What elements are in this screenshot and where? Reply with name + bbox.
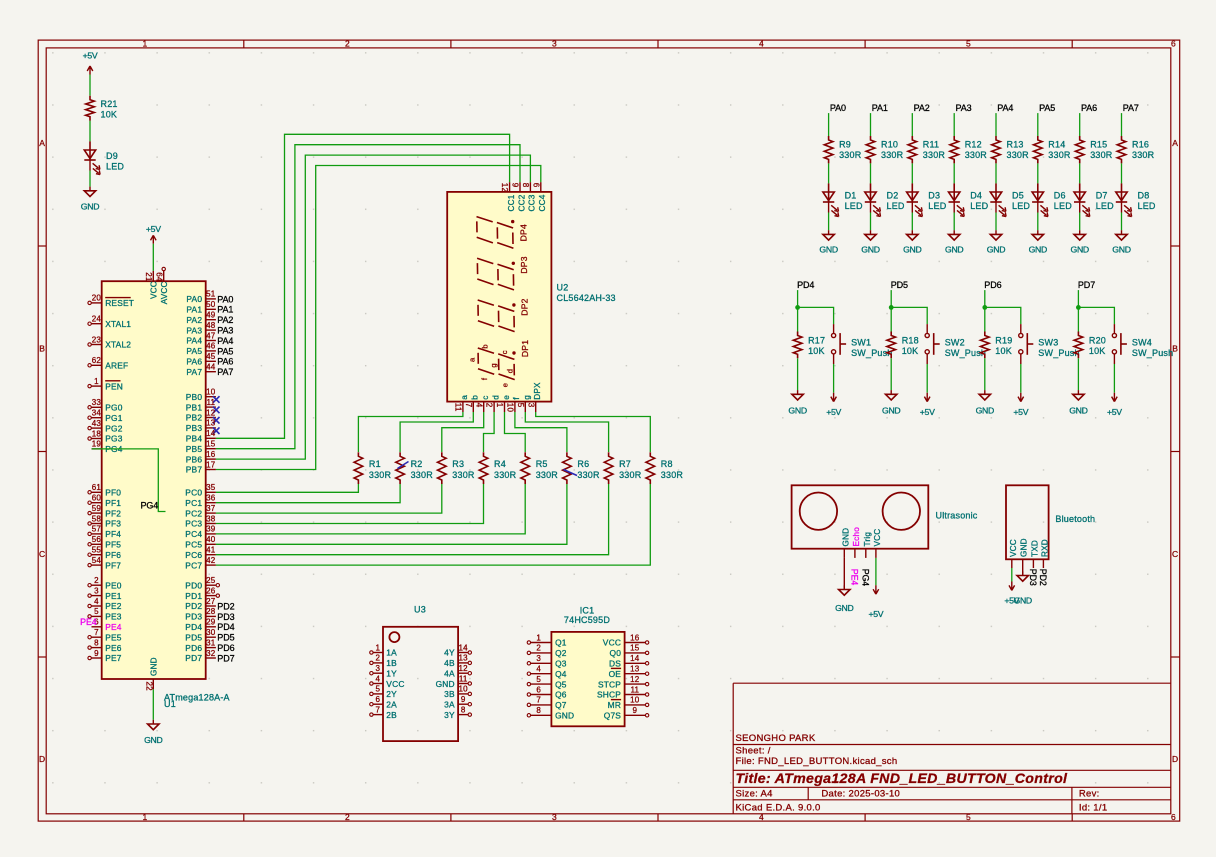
svg-text:PB7: PB7 xyxy=(186,465,203,475)
pin 24 XTAL1 (U1 left) xyxy=(88,315,131,329)
svg-text:3: 3 xyxy=(552,38,557,48)
svg-text:GND: GND xyxy=(144,735,162,745)
wire PA4 to R13 xyxy=(995,113,997,136)
wire PA1 to R10 xyxy=(870,113,872,136)
U2 digit DP1 with segment letters xyxy=(478,340,530,380)
svg-text:3B: 3B xyxy=(444,689,455,699)
pin 38 PC3 (U1 right) xyxy=(185,514,216,528)
svg-text:9: 9 xyxy=(461,695,466,704)
wire PD6 down xyxy=(984,290,986,307)
wire PB5 to CC2 xyxy=(216,145,520,449)
svg-text:PB1: PB1 xyxy=(186,402,203,412)
LED D7 xyxy=(1074,183,1114,216)
svg-text:PE4: PE4 xyxy=(105,622,122,632)
svg-text:PB3: PB3 xyxy=(186,423,203,433)
svg-text:+5V: +5V xyxy=(868,609,883,619)
wire R11 to D3 xyxy=(911,163,913,183)
svg-text:10K: 10K xyxy=(808,346,825,356)
junction node PD4 xyxy=(795,305,800,310)
svg-text:10K: 10K xyxy=(902,346,919,356)
svg-text:PA6: PA6 xyxy=(217,357,233,367)
pin 14 PB4 (U1 right) xyxy=(186,429,216,443)
svg-text:DPX: DPX xyxy=(533,382,542,400)
switch SW3 SW_Push xyxy=(1019,324,1080,364)
svg-text:D8: D8 xyxy=(1138,191,1150,201)
switch SW1 SW_Push xyxy=(832,324,893,364)
pin 7 Q7 (IC1 left) xyxy=(527,696,567,710)
svg-text:PD1: PD1 xyxy=(185,591,202,601)
svg-text:R4: R4 xyxy=(494,459,506,469)
svg-text:PE4: PE4 xyxy=(80,617,97,627)
svg-text:6: 6 xyxy=(531,183,540,188)
svg-text:5: 5 xyxy=(966,812,971,822)
LED D3 xyxy=(907,183,947,216)
pin 11 GND (U3 right) xyxy=(436,674,472,689)
svg-text:1: 1 xyxy=(495,403,504,408)
svg-text:PA1: PA1 xyxy=(872,103,888,113)
svg-text:D2: D2 xyxy=(887,191,899,201)
svg-text:R12: R12 xyxy=(965,140,982,150)
resistor R11 xyxy=(908,136,945,163)
svg-text:330R: 330R xyxy=(452,470,475,480)
pin 10 3B (U3 right) xyxy=(444,685,471,699)
svg-text:SW2: SW2 xyxy=(945,338,965,348)
pin 56 PF5 (U1 left) xyxy=(88,535,121,549)
pin 39 PC4 (U1 right) xyxy=(185,525,216,539)
svg-text:GND: GND xyxy=(1029,244,1047,254)
svg-text:U2: U2 xyxy=(557,283,569,293)
svg-text:11: 11 xyxy=(454,403,463,412)
svg-text:PE4: PE4 xyxy=(850,569,860,586)
wire D1 to GND xyxy=(828,213,830,231)
LED D9 xyxy=(84,141,124,174)
ground GND (bluetooth) xyxy=(1013,571,1031,605)
power +5V (top-left) xyxy=(83,50,98,74)
ground GND (top-left) xyxy=(81,187,99,212)
svg-text:24: 24 xyxy=(92,315,102,324)
svg-text:4: 4 xyxy=(759,38,764,48)
pin 1 e (U2 bottom) xyxy=(495,395,511,412)
svg-text:KiCad E.D.A. 9.0.0: KiCad E.D.A. 9.0.0 xyxy=(736,803,821,814)
svg-text:23: 23 xyxy=(92,335,102,344)
svg-text:Size: A4: Size: A4 xyxy=(736,788,773,799)
svg-text:MR: MR xyxy=(608,700,621,710)
svg-text:4: 4 xyxy=(536,665,541,674)
wire D6 to GND xyxy=(1037,213,1039,231)
svg-text:D1: D1 xyxy=(845,191,857,201)
svg-text:PE1: PE1 xyxy=(105,591,122,601)
svg-text:7: 7 xyxy=(536,696,541,705)
svg-text:PA5: PA5 xyxy=(186,346,202,356)
svg-text:PG2: PG2 xyxy=(105,423,123,433)
svg-text:6: 6 xyxy=(375,695,380,704)
wire junction to switch branch xyxy=(985,307,1021,324)
pin 16 VCC (IC1 right) xyxy=(603,633,649,647)
wire R19 to GND xyxy=(984,358,986,390)
svg-text:Q7S: Q7S xyxy=(604,711,622,721)
LED D6 xyxy=(1032,183,1072,216)
ground GND (LED column 4) xyxy=(987,230,1005,254)
svg-text:10: 10 xyxy=(459,685,469,694)
svg-text:R15: R15 xyxy=(1090,140,1107,150)
pin 12 4A (U3 right) xyxy=(444,664,471,678)
pin 10 MR (IC1 right) xyxy=(608,696,649,710)
resistor R15 xyxy=(1075,136,1112,163)
svg-text:25: 25 xyxy=(206,576,216,585)
pin 42 PC7 (U1 right) xyxy=(185,556,216,570)
svg-text:3A: 3A xyxy=(444,700,455,710)
pin 58 PF3 (U1 left) xyxy=(88,514,121,528)
pin 8 3Y (U3 right) xyxy=(444,705,471,719)
IC1 body xyxy=(551,632,624,726)
svg-text:PD7: PD7 xyxy=(185,653,202,663)
svg-text:7: 7 xyxy=(94,628,99,637)
pin 1 1A (U3 left) xyxy=(370,643,397,657)
pin VCC (ultrasonic) xyxy=(873,529,882,558)
svg-text:PB5: PB5 xyxy=(186,444,203,454)
svg-text:Q4: Q4 xyxy=(555,669,567,679)
pin 5 Q5 (IC1 left) xyxy=(527,675,567,689)
pin 5 2Y (U3 left) xyxy=(370,685,397,699)
pin 17 PB7 (U1 right) xyxy=(186,460,216,474)
ground GND (switch column 0) xyxy=(788,390,806,415)
svg-text:R3: R3 xyxy=(452,459,464,469)
svg-text:R21: R21 xyxy=(101,99,118,109)
resistor R20 xyxy=(1074,332,1106,359)
svg-text:B: B xyxy=(39,344,45,354)
svg-text:PF7: PF7 xyxy=(105,560,121,570)
svg-text:30: 30 xyxy=(206,628,216,637)
svg-text:AREF: AREF xyxy=(105,361,128,371)
svg-text:14: 14 xyxy=(206,429,216,438)
svg-text:D6: D6 xyxy=(1054,191,1066,201)
power +5V (switch column 2) xyxy=(1013,393,1028,417)
svg-text:8: 8 xyxy=(521,183,530,188)
pin 22 GND (U1 bottom) xyxy=(145,657,159,691)
pin 35 PC0 (U1 right) xyxy=(185,483,216,497)
svg-text:PD6: PD6 xyxy=(217,643,234,653)
svg-text:2: 2 xyxy=(94,576,99,585)
svg-text:LED: LED xyxy=(1054,201,1072,211)
svg-text:OE: OE xyxy=(609,669,622,679)
wire g to R7 xyxy=(525,412,608,452)
svg-text:PD4: PD4 xyxy=(217,622,234,632)
svg-text:13: 13 xyxy=(459,654,469,663)
svg-text:LED: LED xyxy=(106,162,124,172)
svg-text:SEONGHO PARK: SEONGHO PARK xyxy=(736,733,816,744)
pin 7 b (U2 bottom) xyxy=(464,395,480,412)
power +5V (above U1 VCC) xyxy=(146,224,161,244)
frame row letters xyxy=(39,138,1178,764)
wire PG4 from pin 19 xyxy=(92,449,166,512)
svg-text:STCP: STCP xyxy=(598,679,621,689)
svg-text:330R: 330R xyxy=(577,470,600,480)
pin 1 Q1 (IC1 left) xyxy=(527,633,567,647)
svg-text:+5V: +5V xyxy=(146,224,161,234)
wire PD7 down xyxy=(1077,290,1079,307)
svg-text:12: 12 xyxy=(500,183,509,193)
svg-text:15: 15 xyxy=(206,440,216,449)
svg-text:48: 48 xyxy=(206,321,216,330)
power +5V (ultrasonic) xyxy=(868,585,883,619)
svg-text:PA3: PA3 xyxy=(217,326,233,336)
svg-text:57: 57 xyxy=(92,525,102,534)
svg-text:7: 7 xyxy=(375,705,380,714)
svg-text:VCC: VCC xyxy=(1009,539,1018,557)
svg-text:14: 14 xyxy=(459,643,469,652)
svg-text:GND: GND xyxy=(1020,538,1029,557)
svg-text:Q2: Q2 xyxy=(555,648,567,658)
pin 49 PA2 (U1 right) xyxy=(186,311,216,325)
pin 2 d (U2 bottom) xyxy=(485,395,501,412)
svg-text:4: 4 xyxy=(375,674,380,683)
wire R21 to D9 xyxy=(89,121,91,142)
svg-text:15: 15 xyxy=(630,644,640,653)
pin TXD (bluetooth) xyxy=(1030,540,1039,568)
svg-text:GND: GND xyxy=(1070,244,1088,254)
resistor R18 xyxy=(887,332,919,359)
svg-text:PA3: PA3 xyxy=(956,103,972,113)
pin 62 AREF (U1 left) xyxy=(88,356,128,370)
svg-text:LED: LED xyxy=(887,201,905,211)
svg-text:11: 11 xyxy=(459,674,468,683)
svg-text:PC7: PC7 xyxy=(185,560,202,570)
svg-text:PC3: PC3 xyxy=(185,519,202,529)
pin 12 PB2 (U1 right) xyxy=(186,408,220,423)
svg-text:R8: R8 xyxy=(661,459,673,469)
pin 2 1B (U3 left) xyxy=(370,654,397,669)
svg-text:PC4: PC4 xyxy=(185,529,202,539)
svg-text:43: 43 xyxy=(92,419,102,428)
ground GND (LED column 7) xyxy=(1112,230,1130,254)
svg-text:D5: D5 xyxy=(1012,191,1024,201)
svg-text:R20: R20 xyxy=(1089,336,1106,346)
U2 digit DP2 xyxy=(478,298,530,331)
wire R5 to PC4 xyxy=(216,484,525,534)
svg-text:LED: LED xyxy=(1138,201,1156,211)
pin 13 4B (U3 right) xyxy=(444,654,471,669)
svg-text:PC1: PC1 xyxy=(185,498,202,508)
svg-text:13: 13 xyxy=(630,665,640,674)
svg-text:2: 2 xyxy=(375,654,380,663)
svg-text:31: 31 xyxy=(206,638,216,647)
svg-text:17: 17 xyxy=(206,460,216,469)
svg-text:36: 36 xyxy=(206,494,216,503)
svg-text:DP1: DP1 xyxy=(520,340,530,357)
svg-text:XTAL1: XTAL1 xyxy=(105,319,131,329)
pin 9 CC2 (U2 top) xyxy=(511,182,527,211)
svg-text:PG4: PG4 xyxy=(141,501,159,511)
pin 21 VCC xyxy=(144,271,159,299)
pin 8 GND (IC1 left) xyxy=(527,706,574,720)
svg-text:PD7: PD7 xyxy=(1078,280,1095,290)
svg-text:PB4: PB4 xyxy=(186,434,203,444)
pin 6 Q6 (IC1 left) xyxy=(527,685,567,699)
wire D4 to GND xyxy=(953,213,955,231)
pin 1 PEN (U1 left) xyxy=(88,377,123,391)
pin 12 CC1 (U2 top) xyxy=(500,182,516,211)
svg-text:26: 26 xyxy=(206,586,216,595)
wire ultrasonic VCC down xyxy=(875,558,877,585)
pin 54 PF7 (U1 left) xyxy=(88,556,121,570)
pin 45 PA6 (U1 right) xyxy=(186,352,216,366)
svg-text:GND: GND xyxy=(436,679,455,689)
wire PA0 to R9 xyxy=(828,113,830,136)
svg-text:R18: R18 xyxy=(902,336,919,346)
svg-text:PA0: PA0 xyxy=(217,294,233,304)
pin 25 PD0 (U1 right) xyxy=(185,576,219,590)
pin 8 PE6 (U1 left) xyxy=(88,638,122,652)
pin 4 Q4 (IC1 left) xyxy=(527,665,567,679)
wire b to R2 xyxy=(400,412,473,452)
svg-text:b: b xyxy=(471,395,480,400)
svg-text:R14: R14 xyxy=(1048,140,1065,150)
pin GND (ultrasonic) xyxy=(841,528,850,558)
svg-text:GND: GND xyxy=(903,244,921,254)
power +5V (switch column 0) xyxy=(826,393,841,417)
svg-text:C: C xyxy=(39,549,45,559)
svg-text:PD3: PD3 xyxy=(1028,569,1038,586)
op-amp U1 ATmega128A body xyxy=(102,281,206,679)
svg-text:GND: GND xyxy=(976,406,994,416)
pin GND (bluetooth) xyxy=(1020,538,1029,568)
svg-text:330R: 330R xyxy=(923,150,946,160)
svg-text:3: 3 xyxy=(94,586,99,595)
svg-text:A: A xyxy=(1172,138,1178,148)
wire R17 to GND xyxy=(797,358,799,390)
ground GND (below U1) xyxy=(144,720,162,745)
wire R1 to PC0 xyxy=(216,484,359,492)
svg-text:PB6: PB6 xyxy=(186,454,203,464)
svg-text:R7: R7 xyxy=(619,459,631,469)
svg-text:Q6: Q6 xyxy=(555,690,567,700)
svg-text:2: 2 xyxy=(536,644,541,653)
wire R10 to D2 xyxy=(870,163,872,183)
svg-text:R1: R1 xyxy=(369,459,381,469)
svg-text:a: a xyxy=(468,357,477,362)
wire c to R3 xyxy=(442,412,484,452)
svg-text:RESET: RESET xyxy=(105,298,134,308)
svg-text:4A: 4A xyxy=(444,668,455,678)
LED D5 xyxy=(990,183,1030,216)
svg-text:9: 9 xyxy=(632,706,637,715)
resistor R6 xyxy=(563,452,600,484)
wire PB6 to CC3 xyxy=(216,155,531,459)
svg-text:50: 50 xyxy=(206,300,216,309)
svg-text:PD2: PD2 xyxy=(217,601,234,611)
svg-text:LED: LED xyxy=(928,201,946,211)
LED D8 xyxy=(1116,183,1156,216)
pin 14 DS (IC1 right) xyxy=(609,654,649,668)
svg-text:b: b xyxy=(481,344,490,348)
svg-text:PD7: PD7 xyxy=(217,653,234,663)
svg-text:PA5: PA5 xyxy=(1039,103,1055,113)
pin 41 PC6 (U1 right) xyxy=(185,546,216,560)
svg-text:+5V: +5V xyxy=(1107,407,1122,417)
svg-text:42: 42 xyxy=(206,556,216,565)
pin 9 3A (U3 right) xyxy=(444,695,471,710)
svg-text:4: 4 xyxy=(94,597,99,606)
svg-text:PE5: PE5 xyxy=(105,632,122,642)
wire R9 to D1 xyxy=(828,163,830,183)
wire junction to R18 xyxy=(890,307,892,331)
svg-text:11: 11 xyxy=(206,398,215,407)
svg-text:40: 40 xyxy=(206,535,216,544)
svg-text:PA2: PA2 xyxy=(914,103,930,113)
svg-text:330R: 330R xyxy=(536,470,559,480)
U3 body xyxy=(383,627,458,741)
svg-text:11: 11 xyxy=(630,685,639,694)
svg-text:4: 4 xyxy=(474,403,483,408)
pin 13 PB3 (U1 right) xyxy=(186,419,220,434)
svg-text:1Y: 1Y xyxy=(386,668,397,678)
pin 27 PD2 (U1 right) xyxy=(185,597,216,611)
wire junction to switch branch xyxy=(1078,307,1114,324)
wire R2 to PC1 xyxy=(216,484,400,503)
wire junction to R20 xyxy=(1077,307,1079,331)
svg-text:+5V: +5V xyxy=(1013,407,1028,417)
svg-text:33: 33 xyxy=(92,398,102,407)
wire f to R6 xyxy=(515,412,567,452)
wire e to R5 xyxy=(505,412,526,452)
svg-text:SW1: SW1 xyxy=(851,338,871,348)
ground GND (ultrasonic) xyxy=(835,585,853,613)
svg-text:PD6: PD6 xyxy=(984,280,1001,290)
pin 44 PA7 (U1 right) xyxy=(186,363,216,377)
LED D2 xyxy=(865,183,905,216)
LED D1 xyxy=(823,183,863,216)
pin 30 PD5 (U1 right) xyxy=(185,628,216,642)
svg-text:3: 3 xyxy=(552,812,557,822)
svg-text:GND: GND xyxy=(819,244,837,254)
svg-text:41: 41 xyxy=(206,546,216,555)
wire PA6 to R15 xyxy=(1079,113,1081,136)
svg-text:13: 13 xyxy=(206,419,216,428)
svg-text:PD5: PD5 xyxy=(891,280,908,290)
svg-text:PA1: PA1 xyxy=(217,305,233,315)
svg-text:1: 1 xyxy=(94,377,99,386)
svg-text:1: 1 xyxy=(375,643,380,652)
svg-text:PE3: PE3 xyxy=(105,612,122,622)
svg-text:PEN: PEN xyxy=(105,381,123,391)
svg-text:c: c xyxy=(500,350,509,354)
pin 9 Q7S (IC1 right) xyxy=(604,706,649,720)
pin 4 c (U2 bottom) xyxy=(474,396,490,412)
svg-text:35: 35 xyxy=(206,483,216,492)
resistor R8 xyxy=(646,452,683,484)
ultrasonic sensor body xyxy=(792,485,929,548)
svg-text:2A: 2A xyxy=(386,700,397,710)
svg-text:PA1: PA1 xyxy=(186,305,202,315)
svg-text:PC0: PC0 xyxy=(185,488,202,498)
wire SW2 to +5V xyxy=(926,364,928,393)
pin 46 PA5 (U1 right) xyxy=(186,342,216,356)
svg-text:PF1: PF1 xyxy=(105,498,121,508)
pin 3 Q3 (IC1 left) xyxy=(527,654,567,668)
svg-text:5: 5 xyxy=(536,675,541,684)
resistor R21 xyxy=(86,96,118,121)
svg-text:File: FND_LED_BUTTON.kicad_sch: File: FND_LED_BUTTON.kicad_sch xyxy=(736,756,898,767)
wire R6 to PC5 xyxy=(216,484,567,544)
svg-text:3: 3 xyxy=(536,654,541,663)
pin 61 PF0 (U1 left) xyxy=(88,483,121,497)
blue mark on R6 xyxy=(564,470,578,476)
svg-text:330R: 330R xyxy=(1048,150,1071,160)
svg-text:4B: 4B xyxy=(444,658,455,668)
pin 11 a (U2 bottom) xyxy=(454,395,470,412)
svg-text:CC3: CC3 xyxy=(528,194,537,211)
svg-text:Q7: Q7 xyxy=(555,700,567,710)
